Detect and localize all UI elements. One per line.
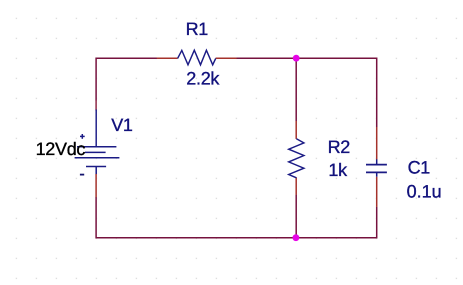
voltage source V1 — [75, 100, 120, 197]
capacitor C1 — [366, 127, 387, 207]
svg-text:2.2k: 2.2k — [186, 69, 220, 89]
svg-text:C1: C1 — [408, 158, 431, 178]
wire: left upper + top-left segment to R1 — [96, 58, 157, 100]
svg-text:R2: R2 — [328, 137, 351, 157]
svg-text:0.1u: 0.1u — [407, 182, 442, 202]
junction node: bottom — [293, 234, 300, 241]
wire: middle lower R2 to bottom junction — [295, 195, 297, 238]
svg-text:V1: V1 — [111, 115, 133, 135]
resistor R1 — [157, 50, 237, 65]
resistor R2 — [289, 121, 304, 195]
wire: top middle R1 to junction — [237, 57, 297, 59]
wire: top-right + right upper to C1 — [296, 58, 377, 127]
junction node: top — [293, 55, 300, 62]
svg-text:1k: 1k — [328, 160, 348, 180]
wire: right lower + bottom + left lower — [96, 197, 377, 238]
wire: middle upper junction to R2 — [295, 58, 297, 121]
svg-text:R1: R1 — [186, 19, 209, 39]
svg-text:12Vdc: 12Vdc — [36, 139, 86, 159]
